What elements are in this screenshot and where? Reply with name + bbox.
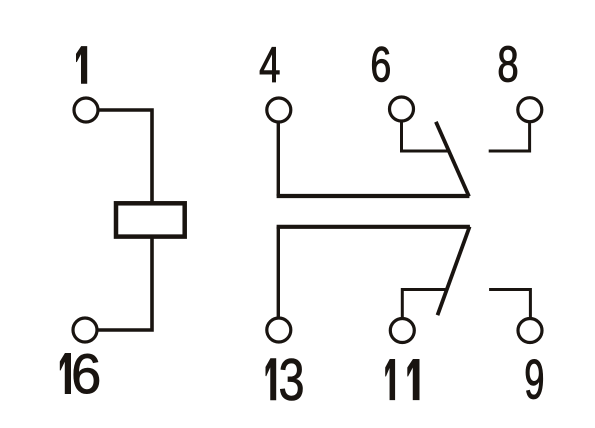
wire pin 11 NC contact [402,290,447,331]
pin 11 terminal [390,319,414,343]
pin 6 label [372,47,389,82]
coil L1 [116,203,185,236]
wire pin 13 common [277,227,280,330]
pin 13 label [266,359,303,401]
wire pin 1 to coil [86,110,152,203]
wire pin 6 NC contact [402,109,450,151]
pin 1 terminal [74,98,98,122]
pin 16 terminal [73,318,97,342]
switch arm top contact [436,122,469,197]
pin 1 label [76,47,86,84]
pin 9 terminal [518,319,542,343]
wire pin 8 NO contact [489,109,530,151]
pin 11 label [386,359,420,399]
pin 8 label [499,46,517,82]
pin 4 terminal [267,98,291,122]
pin 8 terminal [518,98,542,122]
wire pin 4 common [277,110,280,196]
wire coil to pin 16 [86,236,152,330]
wire pin 9 NO contact [489,290,530,331]
pin 6 terminal [390,97,414,121]
pin 4 label [260,47,279,82]
switch arm bottom contact [438,227,470,316]
pin 16 label [60,353,99,393]
pin 9 label [526,359,543,399]
pin 13 terminal [267,318,291,342]
